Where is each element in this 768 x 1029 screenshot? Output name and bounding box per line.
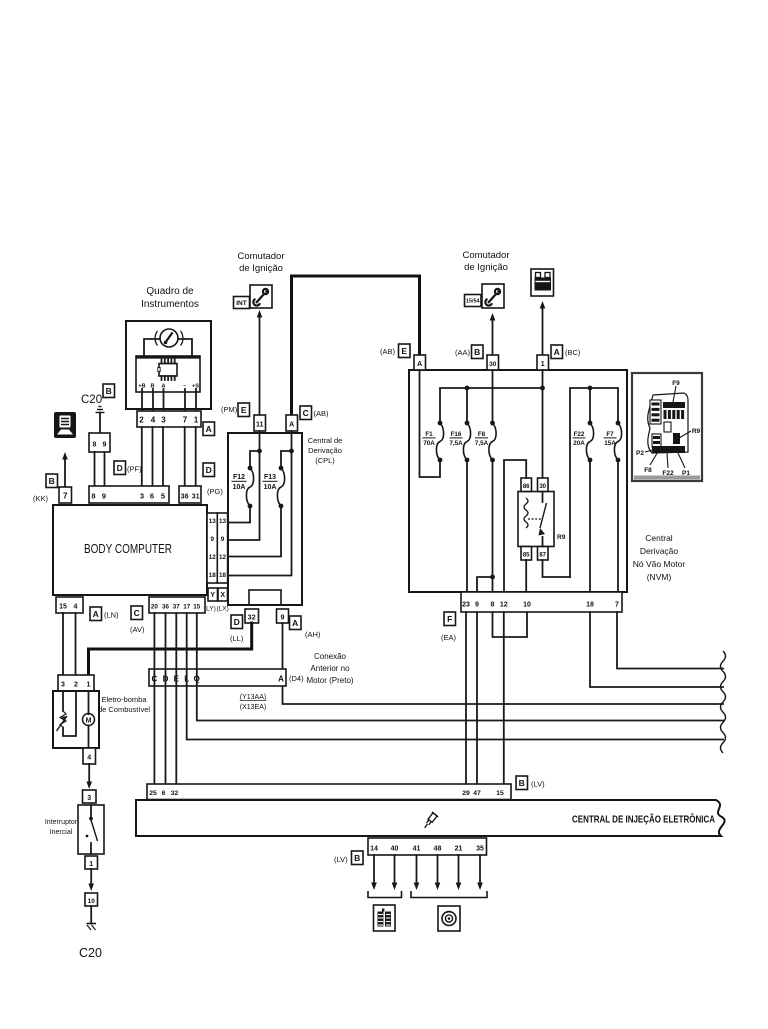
arrows to loads (373, 855, 375, 883)
svg-text:8: 8 (93, 442, 97, 449)
connector label D (LL) (231, 615, 243, 629)
svg-text:1: 1 (89, 861, 93, 868)
svg-text:de Ignição: de Ignição (464, 262, 508, 273)
svg-text:C: C (134, 608, 140, 618)
terminal label 15/54 (465, 295, 482, 307)
wire BC pin 15 to pump pin 3 (62, 613, 64, 675)
connector pin 1 (inertia) (85, 856, 98, 869)
fuse F7 15A (616, 421, 621, 426)
svg-text:30: 30 (539, 484, 546, 490)
connector label X (218, 588, 228, 601)
svg-text:Central: Central (645, 533, 673, 543)
svg-text:F13: F13 (264, 474, 276, 481)
wire F16 to pin 23 (466, 460, 468, 592)
svg-text:12: 12 (209, 554, 217, 561)
ignition coil icon (374, 905, 396, 931)
wires cluster to body computer connectors (141, 427, 143, 486)
wire pin 1 to pin 10 (90, 869, 92, 884)
svg-text:29: 29 (462, 790, 470, 797)
connector strip B LV bottom (14 40 41 48 21 35) (368, 838, 487, 855)
connector pin 30 (487, 355, 499, 370)
connector label A (BC) (551, 345, 563, 359)
svg-text:Anterior no: Anterior no (310, 664, 350, 673)
gauge icon (160, 329, 178, 347)
svg-text:B: B (106, 386, 112, 396)
connector strip 15 4 (56, 597, 83, 613)
svg-text:11: 11 (256, 422, 264, 429)
svg-text:D: D (206, 465, 212, 475)
svg-text:Quadro de: Quadro de (146, 286, 194, 297)
svg-text:de Ignição: de Ignição (239, 263, 283, 274)
svg-text:Interruptor: Interruptor (45, 819, 78, 826)
wire pin 30 to F8 (492, 370, 494, 423)
svg-text:3: 3 (87, 795, 91, 802)
connector strip 36 31 (179, 486, 201, 503)
svg-text:41: 41 (413, 846, 421, 853)
svg-text:E: E (241, 405, 247, 415)
svg-text:9: 9 (210, 536, 214, 543)
svg-text:P1: P1 (682, 470, 690, 477)
svg-text:Derivação: Derivação (308, 446, 342, 455)
svg-text:30: 30 (489, 361, 497, 368)
svg-text:F8: F8 (644, 467, 652, 474)
wire pin A to F1 (420, 370, 441, 477)
relay R9 (518, 492, 554, 547)
svg-text:(LV): (LV) (334, 855, 348, 864)
svg-text:(AV): (AV) (130, 625, 145, 634)
inertia switch S1 (78, 805, 104, 854)
svg-text:87: 87 (539, 553, 546, 559)
svg-text:9: 9 (102, 492, 106, 501)
wire pin 4 to pin 3 (88, 764, 90, 781)
connector pin 9 (CPL bottom) (277, 609, 289, 623)
wire relay 87 to right bus (543, 560, 571, 577)
svg-text:(CPL): (CPL) (315, 456, 335, 465)
wire pin 11 branch (228, 431, 260, 540)
svg-text:48: 48 (434, 846, 442, 853)
wire fuse F13 feed (281, 451, 292, 468)
fuel level sender (62, 691, 64, 711)
wire pin 20/C to 25 (153, 613, 155, 784)
connector pin A (NVM) (414, 355, 426, 370)
connector label A (LN) (90, 607, 102, 621)
CPL bottom connector housing (249, 590, 281, 605)
svg-text:10: 10 (523, 602, 531, 609)
svg-text:(D4): (D4) (289, 674, 304, 683)
svg-text:1: 1 (194, 416, 199, 425)
svg-text:(NVM): (NVM) (647, 572, 672, 582)
svg-text:D: D (234, 617, 240, 627)
wire gauge to pcb (144, 339, 160, 356)
svg-text:F22: F22 (662, 470, 674, 477)
svg-text:10: 10 (88, 898, 96, 905)
svg-text:8: 8 (491, 602, 495, 609)
connector strip X (13 9 12 18) (217, 513, 227, 583)
wire CPL pin 9 through D4 pin A to right (283, 623, 724, 704)
wire pin 15/Q to right (197, 613, 723, 721)
junction box CPL (228, 433, 302, 605)
wire BC pin 4 to pump pin 2 (75, 613, 77, 675)
svg-text:32: 32 (171, 790, 179, 797)
wire relay 85 to pin 10 (525, 560, 527, 592)
connector pin 7 (59, 487, 72, 503)
connector label C (AB) (300, 406, 312, 420)
svg-text:F22: F22 (574, 431, 585, 438)
wire NVM pin 1 to battery (542, 305, 544, 355)
wire pin 18 to right (590, 612, 723, 687)
svg-text:13: 13 (219, 518, 227, 525)
connector label B (103, 384, 115, 398)
svg-text:(KK): (KK) (33, 494, 49, 503)
svg-text:3: 3 (61, 682, 65, 689)
connector strip F (23 9 8 12 10 18 7) (461, 592, 622, 612)
wire relay 86 to pin 12 (504, 460, 526, 592)
svg-text:A: A (289, 422, 294, 429)
fuse F12 10A (248, 466, 253, 471)
connector label D (PF) (114, 461, 126, 475)
svg-text:R9: R9 (557, 534, 566, 541)
svg-text:6: 6 (162, 790, 166, 797)
svg-text:(LL): (LL) (230, 634, 244, 643)
svg-text:4: 4 (151, 416, 156, 425)
svg-text:P2: P2 (636, 450, 644, 457)
svg-text:A: A (554, 347, 560, 357)
svg-text:25: 25 (149, 790, 157, 797)
svg-text:37: 37 (173, 604, 181, 611)
svg-text:CENTRAL DE INJEÇÃO ELETRÔNICA: CENTRAL DE INJEÇÃO ELETRÔNICA (572, 813, 715, 826)
fuel pump motor M (88, 691, 90, 714)
svg-text:(AB): (AB) (314, 409, 330, 418)
svg-text:1: 1 (541, 361, 545, 368)
svg-text:Instrumentos: Instrumentos (141, 299, 199, 310)
wire thick pin 32 to fuel pump pin 1 (89, 623, 252, 675)
svg-text:(AH): (AH) (305, 630, 321, 639)
svg-text:X: X (220, 592, 225, 599)
connector label C (AV) (131, 606, 143, 620)
svg-text:F16: F16 (451, 431, 462, 438)
svg-text:R9: R9 (692, 428, 701, 435)
bracket group 1 (368, 891, 402, 898)
svg-text:Derivação: Derivação (640, 546, 679, 556)
svg-text:7: 7 (183, 416, 188, 425)
svg-text:F9: F9 (672, 380, 680, 387)
svg-text:Inercial: Inercial (50, 829, 73, 836)
svg-text:F: F (447, 614, 452, 624)
wires pcb to connector A (141, 389, 143, 411)
fuse F22 20A (589, 388, 591, 423)
svg-text:9: 9 (103, 442, 107, 449)
wire F8 to pins 8 and 9 (492, 460, 494, 592)
svg-text:1: 1 (87, 682, 91, 689)
wire pin 7 to right (617, 612, 723, 669)
svg-text:18: 18 (209, 572, 217, 579)
svg-text:Comutador: Comutador (238, 251, 285, 262)
connector label B (KK) (46, 474, 58, 488)
fuse F16 7.5A (465, 421, 470, 426)
svg-text:15/54: 15/54 (466, 298, 480, 304)
svg-text:(BC): (BC) (565, 348, 581, 357)
svg-text:18: 18 (219, 572, 227, 579)
wire pin 37/E to 32 (175, 613, 177, 784)
wire jumper pins 8-10 (493, 612, 528, 637)
wire bus to F16 (466, 388, 468, 423)
wire F12 to pin 13 (228, 506, 250, 523)
connector label B (LV) right (516, 776, 528, 790)
ECU bar CENTRAL DE INJECAO ELETRONICA (136, 800, 725, 836)
svg-text:(AB): (AB) (380, 347, 396, 356)
svg-text:INT: INT (236, 300, 247, 307)
wire F7 to pin 7 (617, 460, 619, 592)
svg-text:36: 36 (162, 604, 170, 611)
svg-text:40: 40 (391, 846, 399, 853)
terminal label INT (234, 297, 250, 309)
connector pin 10 (85, 893, 98, 906)
svg-text:A: A (93, 609, 99, 619)
wire NVM pin 30 to ignition switch (492, 317, 494, 355)
connector pin 3 (83, 790, 97, 803)
wire pin A branch (228, 431, 292, 576)
svg-text:C20: C20 (81, 394, 102, 406)
connector strip LV (25 6 32 29 47 15) (147, 784, 511, 800)
svg-text:18: 18 (586, 602, 594, 609)
svg-text:7: 7 (63, 492, 68, 501)
svg-text:3: 3 (140, 492, 144, 501)
svg-text:12: 12 (500, 602, 508, 609)
body computer U2 (53, 505, 207, 595)
svg-text:Nó Vão Motor: Nó Vão Motor (633, 559, 686, 569)
svg-text:(PF): (PF) (127, 465, 142, 474)
antenna/shield symbol C20 (96, 407, 105, 413)
fuse F1 70A (438, 421, 443, 426)
connector strip Y (13 9 12 18) (207, 513, 217, 583)
svg-text:15A: 15A (604, 440, 616, 447)
wire pin 7 to lamp (64, 457, 66, 487)
svg-text:10A: 10A (264, 484, 277, 491)
connector pin 4 (83, 748, 96, 764)
sensor icon (438, 906, 460, 931)
instrument pcb box (136, 356, 200, 392)
battery G1 (531, 269, 554, 296)
connector label F (EA) (444, 612, 456, 626)
svg-text:23: 23 (462, 602, 470, 609)
connector label Y (208, 588, 218, 601)
fuel pump assembly box (53, 691, 99, 748)
svg-text:47: 47 (473, 790, 481, 797)
svg-text:15: 15 (59, 604, 67, 611)
svg-text:(PM): (PM) (221, 405, 238, 414)
svg-text:4: 4 (87, 755, 91, 762)
ground C20 (90, 906, 92, 923)
svg-text:36: 36 (181, 494, 189, 501)
connector strip 8 9 3 6 5 (89, 486, 169, 503)
svg-text:F7: F7 (606, 431, 614, 438)
junction box NVM (409, 370, 627, 592)
connector strip 3 2 1 (fuel pump) (58, 675, 94, 691)
svg-text:31: 31 (192, 494, 200, 501)
ignition switch icon (right) (482, 284, 504, 308)
connector strip 20 36 37 17 15 (149, 597, 205, 613)
svg-text:85: 85 (523, 553, 530, 559)
fuse F13 10A (279, 466, 284, 471)
connector pin 11 (254, 415, 266, 431)
svg-text:F1: F1 (425, 431, 433, 438)
svg-text:(AA): (AA) (455, 348, 471, 357)
svg-text:12: 12 (219, 554, 227, 561)
svg-text:(LN): (LN) (104, 611, 119, 620)
wire pin 23 down (465, 612, 467, 784)
svg-text:C: C (303, 408, 309, 418)
wire pin 1 to relay 30 (542, 370, 544, 478)
svg-text:F12: F12 (233, 474, 245, 481)
svg-text:15: 15 (193, 604, 201, 611)
svg-text:Motor (Preto): Motor (Preto) (306, 676, 353, 685)
wire CPL pin 11 to ignition switch (259, 314, 261, 415)
svg-text:B: B (354, 853, 360, 863)
svg-text:C20: C20 (79, 946, 102, 960)
svg-text:Y: Y (210, 592, 215, 599)
instrument cluster box (126, 321, 211, 409)
wire break squiggle right edge (721, 651, 726, 753)
svg-text:35: 35 (476, 846, 484, 853)
svg-text:A: A (417, 361, 422, 368)
svg-text:(X13EA): (X13EA) (240, 704, 266, 711)
svg-text:3: 3 (161, 416, 166, 425)
svg-text:Eletro-bomba: Eletro-bomba (101, 695, 147, 704)
svg-text:20: 20 (151, 604, 159, 611)
wire F13 to pin 12 (228, 506, 281, 557)
svg-text:M: M (86, 718, 92, 725)
bracket group 2 (411, 891, 487, 898)
connector pin 32 (245, 609, 259, 623)
svg-text:A: A (278, 675, 284, 684)
svg-text:(Y13AA): (Y13AA) (240, 694, 266, 701)
svg-text:BODY COMPUTER: BODY COMPUTER (84, 542, 172, 556)
svg-text:A: A (206, 424, 212, 434)
ignition switch icon (left) (250, 285, 272, 308)
connector label A (AH) (290, 616, 302, 630)
NVM fusebox drawing panel (632, 373, 702, 481)
svg-text:5: 5 (161, 492, 165, 501)
svg-text:B: B (519, 778, 525, 788)
connector pin 1 (537, 355, 549, 370)
wire fuse F12 feed (250, 451, 260, 468)
svg-text:9: 9 (221, 536, 225, 543)
svg-text:13: 13 (209, 518, 217, 525)
connector pin A (CPL top) (286, 415, 298, 431)
svg-text:E: E (401, 346, 407, 356)
svg-text:4: 4 (74, 604, 78, 611)
svg-text:2: 2 (139, 416, 144, 425)
wire F22 to pin 18 (589, 460, 591, 592)
svg-text:17: 17 (183, 604, 191, 611)
svg-text:7: 7 (615, 602, 619, 609)
wire thick ignition feed (292, 276, 420, 415)
svg-text:Central de: Central de (308, 436, 343, 445)
svg-text:Conexão: Conexão (314, 652, 347, 661)
wire pin 9 down (476, 612, 478, 784)
svg-text:B: B (474, 347, 480, 357)
injector icon (421, 812, 438, 830)
svg-text:6: 6 (150, 492, 154, 501)
connector strip D4 (C D E L Q A) (149, 669, 286, 686)
svg-text:A: A (292, 618, 298, 628)
connector 8 9 (C20) (89, 433, 110, 452)
svg-text:15: 15 (496, 790, 504, 797)
wire pin 17/L to right (187, 613, 723, 740)
svg-text:(EA): (EA) (441, 633, 457, 642)
svg-text:32: 32 (248, 615, 256, 622)
svg-text:7,5A: 7,5A (449, 440, 463, 447)
connector label A (203, 422, 215, 436)
IC chip U1 (159, 364, 177, 377)
warning lamp icon (54, 412, 76, 438)
svg-text:(PG): (PG) (207, 487, 223, 496)
svg-text:21: 21 (455, 846, 463, 853)
svg-text:Comutador: Comutador (463, 250, 510, 261)
svg-text:14: 14 (370, 846, 378, 853)
svg-text:9: 9 (281, 615, 285, 622)
svg-text:F8: F8 (478, 431, 486, 438)
svg-text:70A: 70A (423, 440, 435, 447)
svg-text:2: 2 (74, 682, 78, 689)
svg-text:B: B (49, 476, 55, 486)
connector label D (PG) (203, 463, 215, 477)
connector A of cluster: pins 2 4 3 7 1 (137, 411, 201, 427)
fuse F8 7.5A (490, 421, 495, 426)
bus right NVM (570, 388, 618, 577)
svg-text:7,5A: 7,5A (475, 440, 489, 447)
svg-text:86: 86 (523, 484, 530, 490)
svg-text:(LX): (LX) (217, 606, 229, 613)
svg-text:8: 8 (91, 492, 95, 501)
svg-text:D: D (117, 463, 123, 473)
svg-text:de Combustível: de Combustível (98, 705, 150, 714)
bus left NVM (440, 388, 543, 423)
wire pin 36/D to 6 (165, 613, 167, 784)
svg-text:9: 9 (475, 602, 479, 609)
svg-text:(LV): (LV) (531, 780, 545, 789)
svg-text:10A: 10A (233, 484, 246, 491)
wires C20 connector down (94, 452, 96, 486)
svg-text:20A: 20A (573, 440, 585, 447)
wire pin 12 down (503, 612, 505, 784)
